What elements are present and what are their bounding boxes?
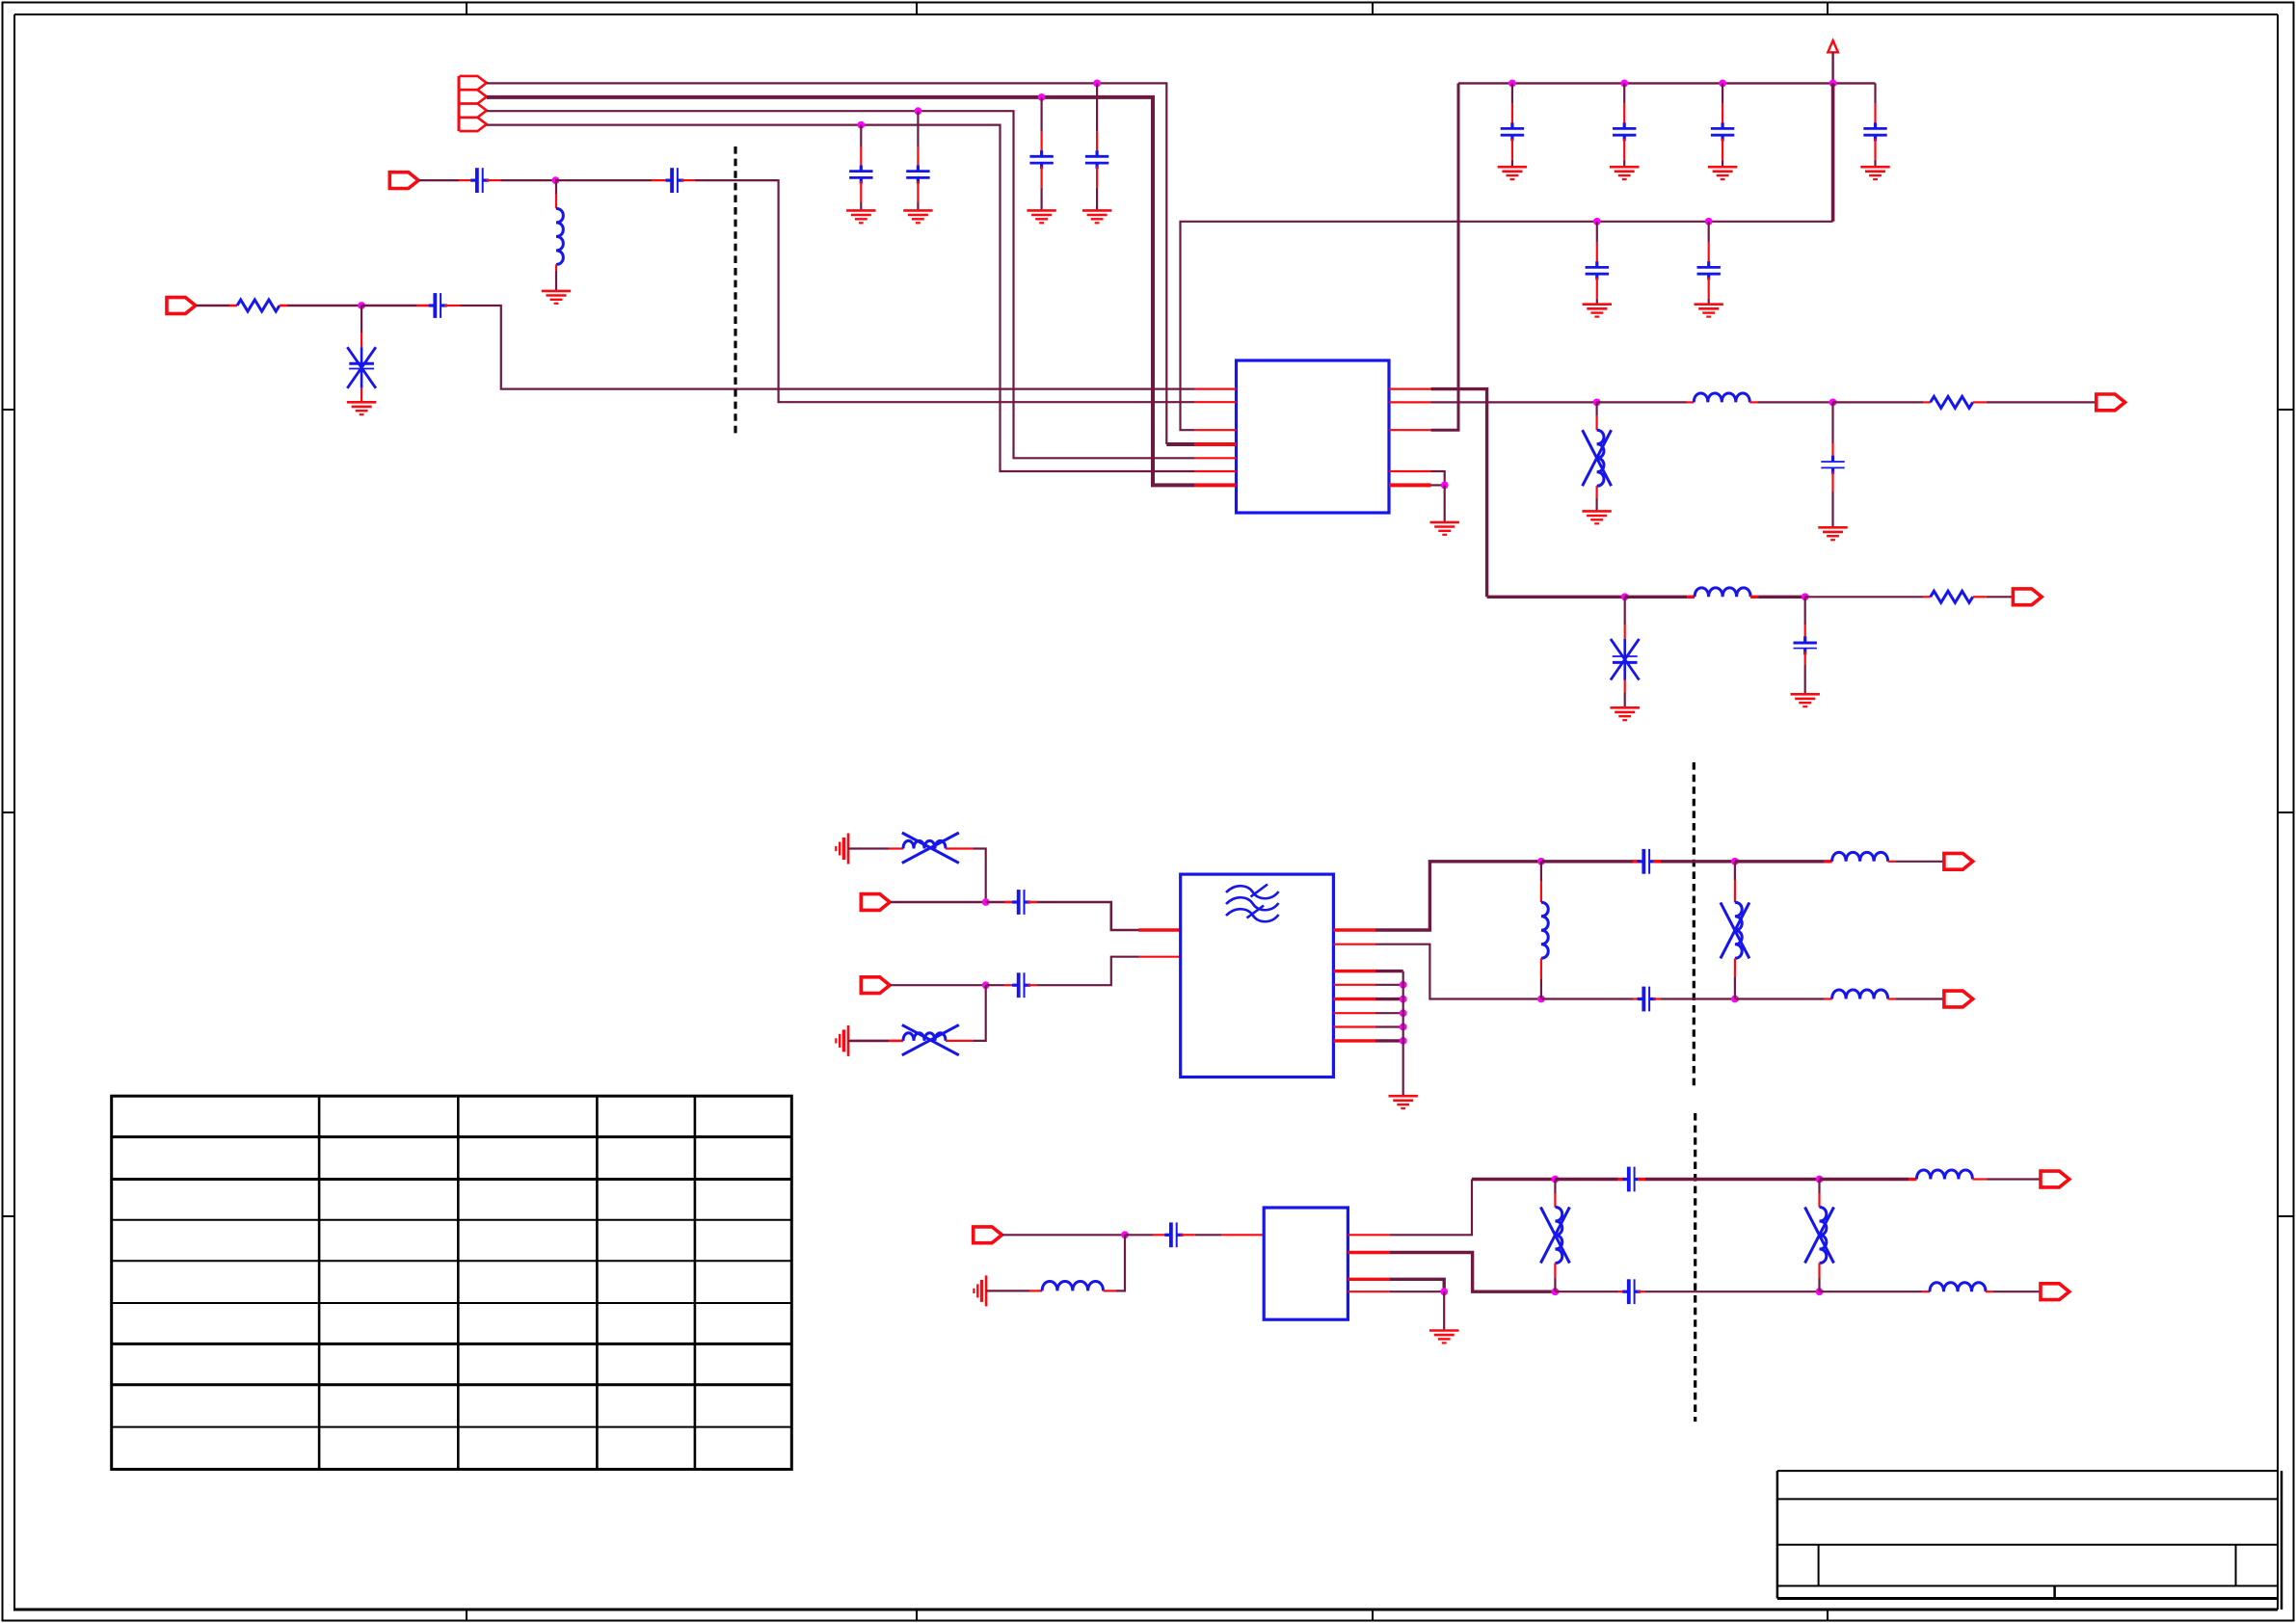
- junction VCC rail 2: [1620, 80, 1628, 88]
- capacitor C19: [1012, 972, 1030, 998]
- junction row1 b: [1829, 399, 1837, 407]
- ground below L1: [542, 291, 571, 304]
- junction brail2 a: [1552, 1288, 1560, 1295]
- IC U2 lower pin stubs: [1333, 971, 1402, 1041]
- wire to U1 ground: [1444, 485, 1446, 522]
- wire N5 to C22: [1125, 1234, 1153, 1236]
- wire rail2 d: [1735, 998, 1825, 999]
- dashed partition line 2: [1693, 762, 1695, 1088]
- ground below C3: [1027, 210, 1055, 223]
- junction VCC rail 3: [1719, 80, 1726, 88]
- IC U3: [1264, 1208, 1348, 1319]
- ground below C9: [1498, 167, 1527, 179]
- IC U1: [1237, 360, 1390, 513]
- port P8 (mid out2): [1944, 991, 1973, 1007]
- inductor L1 (shunt): [556, 180, 563, 291]
- wire brail2 b: [1555, 1290, 1617, 1292]
- inductor L10: [1832, 990, 1888, 998]
- wire net A (bus top): [487, 83, 1167, 444]
- inductor L4: [1695, 588, 1750, 597]
- wire row1 from U1 pin R2: [1431, 401, 1597, 403]
- variable capacitor C8: [347, 306, 376, 401]
- junction bus2 1: [1593, 218, 1601, 226]
- junction on net A: [1093, 80, 1101, 88]
- junction on net B: [1038, 93, 1046, 101]
- ground of U2: [1389, 1096, 1418, 1108]
- revision table: [112, 1096, 792, 1469]
- wire row1 c: [1749, 401, 1757, 403]
- wire brail2 e: [1986, 1290, 1993, 1292]
- IC U2 (filter): [1181, 874, 1334, 1077]
- wire U1 pin R3 riser: [1431, 83, 1459, 430]
- wire G2 to L6: [848, 1040, 889, 1043]
- wire P1 to R1: [196, 305, 229, 307]
- capacitor C2: [906, 111, 929, 210]
- wire P9 to node N5: [1002, 1234, 1125, 1236]
- variable capacitor C16: [1611, 597, 1640, 706]
- ground of U1: [1430, 522, 1459, 535]
- capacitor C12: [1863, 83, 1886, 167]
- variable inductor L12: [1540, 1180, 1569, 1292]
- junction U1 ground node: [1441, 482, 1449, 490]
- inductor L9: [1832, 852, 1888, 861]
- ground below C2: [903, 210, 932, 223]
- ground lead G2 (rotated): [836, 1025, 848, 1056]
- wire row2 a: [1487, 596, 1625, 599]
- junction on net C: [915, 107, 922, 115]
- wire row2 d: [1805, 596, 1923, 598]
- wire net D: [487, 125, 1194, 471]
- wire C18 to U2 pin 1: [1028, 901, 1037, 904]
- wire row1 e: [1973, 401, 1987, 403]
- wire U1 pin R1 to row2 feed: [1431, 389, 1487, 598]
- capacitor C17: [1794, 597, 1817, 693]
- wire rail2 b: [1541, 998, 1633, 999]
- wire L6 to node N4: [946, 1040, 974, 1042]
- ground below C14: [1695, 305, 1723, 317]
- junction brail1 b: [1816, 1176, 1824, 1184]
- wire brail2 c: [1638, 1290, 1645, 1292]
- junction bus2 2: [1705, 218, 1713, 226]
- inductor L11: [1042, 1282, 1103, 1291]
- capacitor C1: [849, 125, 872, 211]
- port P10 (bottom out1): [2041, 1171, 2069, 1187]
- power flag VCC: [1828, 40, 1838, 83]
- wire rail1 e: [1888, 861, 1896, 863]
- junction row1 a: [1593, 399, 1601, 407]
- wire N3 to C18: [986, 901, 1004, 904]
- bus VCC rail: [1458, 82, 1876, 84]
- junction node N3: [982, 898, 990, 906]
- junction rail1 a: [1537, 858, 1545, 865]
- wire U3 pin R2 to rail2: [1348, 1253, 1555, 1292]
- wire VCC to bus2: [1831, 83, 1835, 221]
- resistor R3: [1931, 591, 1973, 602]
- capacitor C11: [1711, 83, 1734, 167]
- wire row2 c: [1750, 596, 1758, 599]
- wire G3 to L11: [986, 1290, 1029, 1291]
- capacitor C15: [1821, 402, 1844, 526]
- wire brail1 c: [1638, 1178, 1645, 1181]
- variable inductor L8: [1721, 862, 1749, 999]
- junction row2 a: [1621, 593, 1629, 600]
- junction brail2 b: [1816, 1288, 1824, 1295]
- wire R1 to node: [280, 305, 287, 307]
- connector J1 (4-port stack): [459, 76, 487, 131]
- ground below C16: [1611, 707, 1640, 720]
- ground below C8: [347, 402, 376, 414]
- dashed partition line 1: [734, 146, 736, 434]
- wire U1 pin R5: [1431, 484, 1445, 486]
- variable inductor L2: [1583, 402, 1612, 511]
- wire L11 to node N5: [1104, 1290, 1117, 1291]
- IC U2 filter icon: [1226, 885, 1279, 922]
- capacitor C9: [1501, 83, 1524, 167]
- wire C5 to node: [487, 179, 501, 181]
- capacitor C20: [1638, 849, 1656, 874]
- wire L5 to node N3: [946, 847, 974, 849]
- port P2: [389, 173, 418, 189]
- ground below C15: [1818, 527, 1847, 540]
- junctions U2 ground bus: [1400, 981, 1407, 1045]
- junction node N5: [1121, 1231, 1129, 1238]
- title block: [1777, 1471, 2282, 1610]
- junction VCC rail 1: [1508, 80, 1516, 88]
- wire brail1 e: [1972, 1178, 1987, 1180]
- wire U3 pin R3: [1348, 1279, 1444, 1291]
- inductor L15: [1930, 1283, 1986, 1291]
- wire brail1 d: [1820, 1178, 1909, 1181]
- ground below C1: [846, 210, 875, 223]
- junction node N2: [358, 302, 365, 309]
- resistor R1: [237, 300, 280, 311]
- wire to U3 ground: [1443, 1291, 1445, 1329]
- ground below C12: [1860, 167, 1889, 179]
- wire row2 b: [1625, 596, 1687, 599]
- wire brail1 b: [1555, 1178, 1617, 1181]
- wire G1 to L5: [848, 847, 889, 849]
- capacitor C6: [666, 168, 684, 193]
- ground lead G3 (rotated): [974, 1275, 986, 1306]
- wire rail1 c: [1653, 860, 1661, 863]
- wire U1 pin R4: [1431, 471, 1445, 485]
- wire U2 pin R2 to rail2: [1333, 945, 1541, 999]
- IC U1 left pin stubs: [1194, 389, 1237, 486]
- inductor L14: [1916, 1170, 1972, 1179]
- variable inductor L5: [902, 833, 959, 863]
- junction row2 b: [1802, 593, 1809, 600]
- junction on net D: [857, 121, 865, 129]
- ground below L2: [1582, 511, 1611, 523]
- wire U3 pin R4: [1348, 1290, 1444, 1292]
- wire node to C6: [555, 179, 652, 181]
- port P4: [861, 977, 890, 994]
- wire row1 b: [1597, 401, 1687, 403]
- inductor L7 (shunt): [1541, 862, 1548, 999]
- port P6 (row2 out): [2013, 589, 2042, 605]
- capacitor C13: [1586, 222, 1609, 305]
- capacitor C3: [1029, 97, 1053, 210]
- wire P4 to node N4: [891, 984, 986, 986]
- wire net B (bus thick): [487, 97, 1194, 486]
- wire C22 to U3: [1181, 1234, 1195, 1236]
- port P11 (bottom out2): [2041, 1284, 2069, 1300]
- port P9: [974, 1227, 1002, 1243]
- capacitor C21: [1638, 987, 1656, 1012]
- wire N4 to C19: [986, 984, 1004, 986]
- IC U1 right pin stubs: [1389, 389, 1431, 486]
- port P7 (mid out1): [1944, 853, 1973, 869]
- wire rail1 b: [1541, 860, 1633, 863]
- wire row2 e: [1973, 596, 1987, 598]
- port P1: [167, 298, 196, 314]
- capacitor C22: [1164, 1222, 1183, 1247]
- wire net C: [487, 111, 1194, 458]
- resistor R2: [1931, 396, 1973, 408]
- capacitor C18: [1012, 890, 1030, 915]
- capacitor C14: [1697, 222, 1721, 305]
- wire P2 to C5: [419, 179, 460, 181]
- junction rail2 b: [1731, 996, 1739, 1003]
- wire rail1 d: [1735, 860, 1825, 863]
- wire net A into pin L4: [1166, 442, 1194, 446]
- wire rail2 e: [1888, 998, 1896, 999]
- junction rail1 b: [1731, 858, 1739, 865]
- wire brail2 d: [1820, 1290, 1923, 1292]
- capacitor C7: [429, 293, 447, 318]
- ground of U3: [1429, 1331, 1458, 1344]
- capacitor C24: [1622, 1279, 1641, 1304]
- junction node N4: [982, 981, 990, 989]
- ground below C17: [1791, 694, 1820, 706]
- wire C19 to U2 pin 2: [1028, 984, 1037, 986]
- wire rail2 c: [1653, 998, 1661, 999]
- wire node to C7: [361, 305, 416, 307]
- wire U3 pin R1 to rail1: [1348, 1180, 1555, 1236]
- capacitor C4: [1085, 83, 1108, 210]
- ground lead G1 (rotated): [836, 834, 848, 865]
- variable inductor L13: [1805, 1180, 1834, 1292]
- junction node N1: [552, 176, 560, 184]
- capacitor C23: [1622, 1167, 1641, 1192]
- ground below C4: [1082, 210, 1111, 223]
- wire U2 ground bus: [1402, 971, 1404, 1096]
- junction VCC power node: [1829, 80, 1837, 88]
- variable inductor L6: [902, 1024, 959, 1054]
- port P5 (row1 out): [2096, 394, 2125, 411]
- inductor L3: [1694, 393, 1749, 402]
- wire C7 to pin L1: [444, 305, 460, 306]
- junction brail1 a: [1552, 1176, 1560, 1184]
- junction rail2 a: [1537, 996, 1545, 1003]
- wire P3 to node N3: [891, 901, 986, 904]
- dashed partition line 3: [1694, 1113, 1696, 1422]
- capacitor C10: [1613, 83, 1636, 167]
- junction U3 ground node: [1440, 1288, 1448, 1295]
- wire row1 d: [1833, 401, 1924, 403]
- ground below C10: [1610, 167, 1639, 179]
- ground below C11: [1708, 167, 1737, 179]
- wire U2 pin R1 to rail1: [1333, 862, 1541, 930]
- port P3: [861, 894, 890, 911]
- ground below C13: [1583, 305, 1612, 317]
- wire C6 to pin L2: [681, 179, 695, 181]
- capacitor C5: [470, 168, 489, 193]
